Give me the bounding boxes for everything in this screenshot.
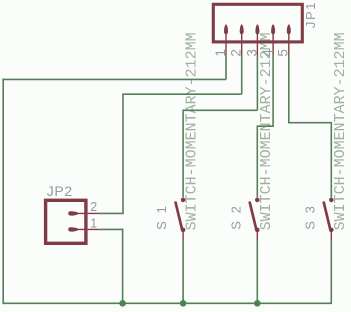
svg-text:5: 5 [276,49,291,57]
wire JP2 pin1 vertical to bus [122,229,124,304]
wire JP1 pin4 horizontal to S2 [257,125,274,127]
connector JP1 pin 4 pad [271,24,275,55]
switch S3 lever [324,203,331,230]
wire S1 bottom vertical [182,240,184,303]
svg-text:JP2: JP2 [47,183,73,199]
switch S3 bottom pin [330,230,332,241]
wire JP1 pin3 horizontal to S1 [183,109,257,111]
junction dot S2 on bus [254,300,261,307]
wire JP1 pin2 vertical [241,56,243,94]
svg-text:S1: S1 [154,198,169,230]
connector JP2 pin 1 pad [68,227,99,231]
wire JP1 pin3 vertical [256,56,258,111]
switch S1 lever [176,203,183,230]
connector JP1 pin 1 pad [224,24,228,55]
switch S1 bottom pin [182,230,184,241]
wire JP1 pin4 vertical [272,56,274,126]
svg-text:4: 4 [260,49,275,57]
switch S2 bottom contact [255,228,260,233]
switch S2 top contact [255,198,260,203]
switch S2 bottom pin [256,230,258,241]
wire bottom bus [3,302,331,304]
wire JP1 pin5 vertical [288,56,290,124]
svg-text:SWITCH-MOMENTARY-212MM: SWITCH-MOMENTARY-212MM [184,32,201,230]
switch S3 top contact [329,198,334,203]
wire S3 top vertical [330,122,332,197]
connector JP1 box [213,4,302,42]
wire S2 top vertical [256,125,258,197]
wire JP1 pin1 horizontal to left [2,78,226,80]
svg-text:S3: S3 [303,198,318,230]
connector JP1 pin 2 pad [240,24,244,55]
svg-text:JP1: JP1 [303,1,318,28]
wire JP1 pin1 vertical [225,56,227,80]
switch S1 top contact [181,198,186,203]
connector JP2 box [46,200,86,243]
junction dot JP2 net on bus [119,300,126,307]
wire S2 bottom vertical [256,240,258,303]
svg-text:SWITCH-MOMENTARY-212MM: SWITCH-MOMENTARY-212MM [258,32,275,230]
switch S1 bottom contact [181,228,186,233]
svg-text:1: 1 [90,216,97,230]
svg-text:S2: S2 [228,198,243,230]
svg-text:1: 1 [213,49,228,57]
wire JP2 pin2 vertical [122,93,124,213]
wire JP1 pin2 horizontal [123,93,242,95]
svg-text:3: 3 [244,49,259,57]
svg-text:2: 2 [229,49,244,57]
connector JP1 pin 5 pad [287,24,291,55]
wire S1 top vertical [182,110,184,198]
svg-text:2: 2 [90,200,97,214]
wire JP2 pin1 horizontal [99,228,123,230]
switch S2 lever [250,203,257,230]
wire JP2 pin2 horizontal [99,212,124,214]
connector JP2 pin 2 pad [68,211,99,215]
wire JP1 pin5 horizontal to S3 [289,122,332,124]
junction dot S1 on bus [180,300,187,307]
wire S3 bottom vertical [330,240,332,304]
svg-text:SWITCH-MOMENTARY-212MM: SWITCH-MOMENTARY-212MM [332,32,349,230]
wire left vertical [2,79,4,305]
switch S3 bottom contact [329,228,334,233]
connector JP1 pin 3 pad [255,24,259,55]
